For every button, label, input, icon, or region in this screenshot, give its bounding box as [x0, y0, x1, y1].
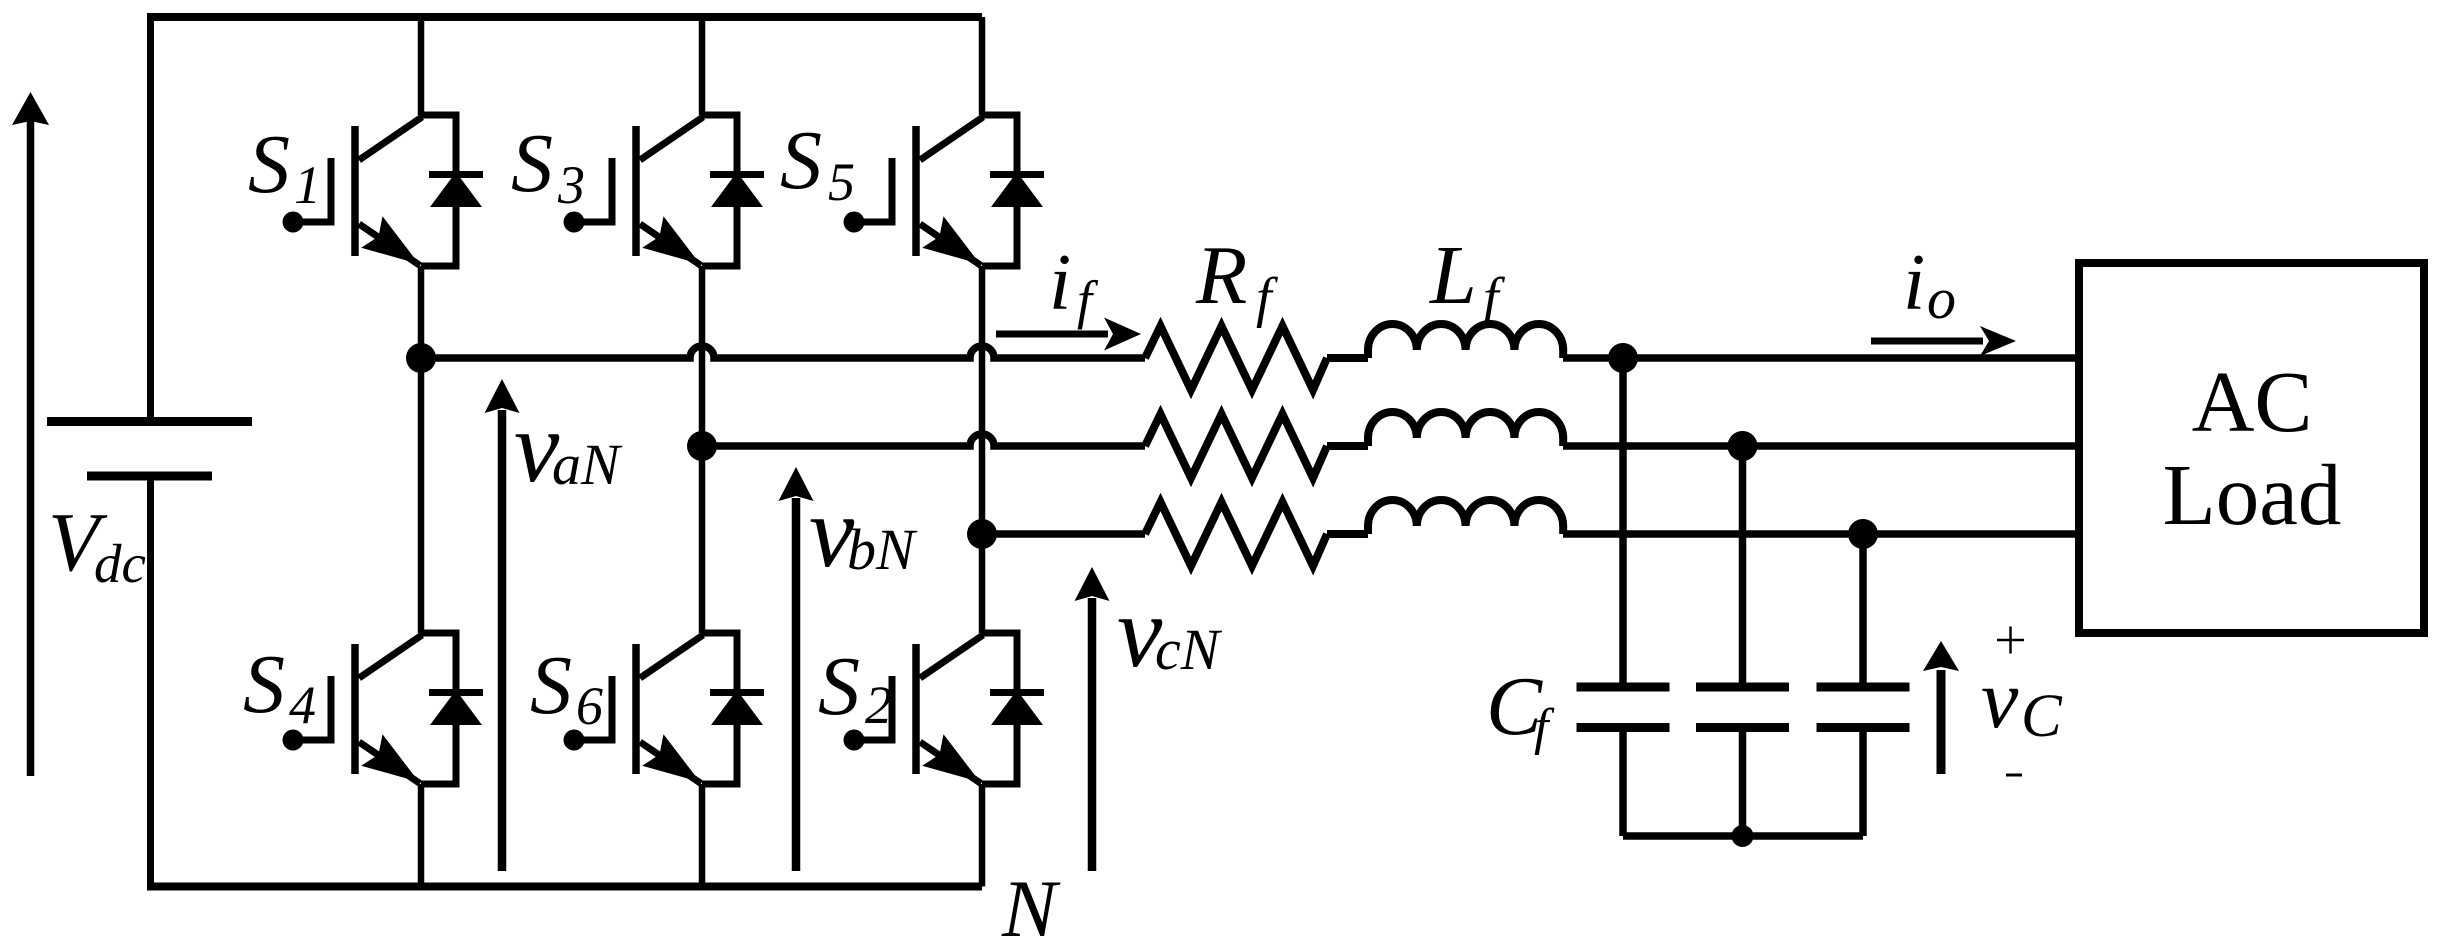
- voltage arrow vcN: [1088, 598, 1097, 871]
- battery Vdc top plate: [47, 417, 252, 426]
- wire: phase leg b: [699, 17, 706, 115]
- capacitor Cf c: [1817, 687, 1910, 836]
- transistor S4: [301, 633, 456, 784]
- svg-text:C: C: [2021, 683, 2063, 750]
- wire: phase leg c: [979, 17, 986, 115]
- wire: phase a output with crossover hops: [421, 346, 1145, 358]
- wire: top rail: [147, 13, 982, 21]
- wire: [1327, 354, 1368, 362]
- wire: phase b to load: [1563, 442, 2079, 450]
- transistor S5: [862, 115, 1017, 266]
- node phase b / Cf: [1728, 431, 1758, 461]
- current arrow io: [1871, 338, 1983, 345]
- svg-text:4: 4: [289, 675, 316, 735]
- plus sign: [1997, 627, 2024, 654]
- wire: phase c to load: [1563, 530, 2079, 538]
- svg-text:S: S: [511, 117, 553, 210]
- capacitor Cf a: [1577, 687, 1670, 836]
- wire: DC bus left vertical lower: [147, 479, 154, 890]
- wire: phase leg a: [418, 17, 425, 115]
- voltage arrow vC: [1937, 670, 1946, 774]
- svg-text:S: S: [530, 639, 572, 732]
- wire: Cf leg c: [1859, 534, 1867, 683]
- svg-text:cN: cN: [1155, 617, 1223, 682]
- inductor Lf phase c: [1368, 500, 1563, 534]
- wire: DC bus left vertical upper: [147, 13, 154, 418]
- node b: [687, 431, 717, 461]
- wire: Cf common rail: [1623, 832, 1863, 840]
- svg-text:S: S: [243, 638, 285, 731]
- AC Load box: [2079, 263, 2424, 633]
- svg-text:o: o: [1927, 266, 1956, 331]
- inductor Lf phase a: [1368, 324, 1563, 358]
- svg-text:Load: Load: [2163, 446, 2342, 543]
- transistor S2: [862, 633, 1017, 784]
- svg-text:5: 5: [828, 152, 855, 212]
- wire: [1327, 442, 1368, 450]
- node a: [406, 343, 436, 373]
- minus sign: [2006, 774, 2022, 777]
- resistor Rf phase c: [1145, 502, 1327, 566]
- transistor S6: [582, 633, 737, 784]
- svg-text:S: S: [818, 640, 860, 733]
- wire: phase a to load: [1563, 354, 2079, 362]
- svg-text:i: i: [1049, 239, 1071, 327]
- svg-text:dc: dc: [94, 533, 146, 594]
- svg-text:aN: aN: [552, 432, 623, 497]
- wire: Cf leg b: [1739, 446, 1747, 683]
- resistor Rf phase a: [1145, 326, 1327, 390]
- wire: [1327, 530, 1368, 538]
- inductor Lf phase b: [1368, 412, 1563, 446]
- node phase c / Cf: [1848, 519, 1878, 549]
- svg-text:L: L: [1429, 229, 1477, 322]
- transistor S1: [301, 115, 456, 266]
- svg-text:S: S: [248, 118, 290, 211]
- wire: bottom rail: [147, 883, 982, 891]
- svg-text:AC: AC: [2192, 353, 2313, 450]
- svg-text:2: 2: [865, 675, 892, 735]
- svg-text:R: R: [1195, 229, 1247, 322]
- wire: Cf leg a: [1619, 358, 1627, 683]
- node N of capacitor bank: [1732, 825, 1754, 847]
- svg-text:N: N: [1001, 863, 1061, 950]
- Vdc direction arrow: [27, 120, 35, 776]
- node c: [967, 519, 997, 549]
- svg-text:bN: bN: [847, 517, 918, 582]
- battery Vdc bottom plate: [87, 472, 212, 481]
- svg-text:3: 3: [557, 155, 585, 215]
- voltage arrow vaN: [498, 410, 507, 871]
- node phase a / Cf: [1608, 343, 1638, 373]
- svg-text:6: 6: [576, 676, 603, 736]
- svg-text:1: 1: [294, 155, 321, 215]
- svg-text:S: S: [780, 114, 822, 207]
- voltage arrow vbN: [792, 498, 801, 871]
- transistor S3: [582, 115, 737, 266]
- resistor Rf phase b: [1145, 414, 1327, 478]
- capacitor Cf b: [1696, 687, 1789, 836]
- svg-text:i: i: [1903, 239, 1925, 327]
- wire: phase c output: [982, 530, 1145, 538]
- svg-text:v: v: [1981, 653, 2019, 746]
- wire: phase b output with crossover hop: [702, 434, 1145, 446]
- current arrow if: [996, 331, 1108, 338]
